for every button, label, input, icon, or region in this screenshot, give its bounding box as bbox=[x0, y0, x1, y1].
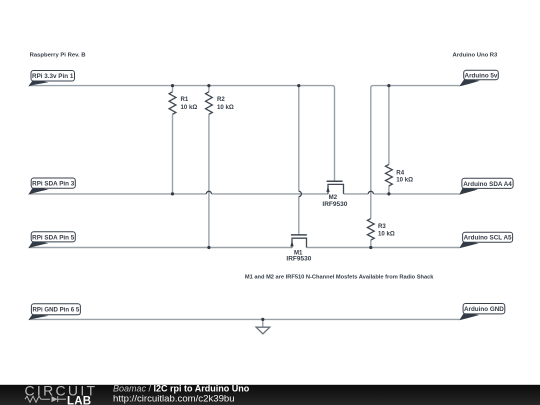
svg-text:Arduino GND: Arduino GND bbox=[464, 306, 504, 313]
svg-text:LAB: LAB bbox=[67, 395, 91, 405]
svg-text:Arduino Uno R3: Arduino Uno R3 bbox=[453, 52, 499, 58]
svg-text:Arduino 5v: Arduino 5v bbox=[465, 72, 498, 79]
svg-text:10 kΩ: 10 kΩ bbox=[396, 177, 413, 184]
svg-text:M1 and M2 are IRF510 N-Channel: M1 and M2 are IRF510 N-Channel Mosfets A… bbox=[245, 274, 434, 280]
svg-text:Raspberry Pi Rev. B: Raspberry Pi Rev. B bbox=[30, 53, 86, 59]
svg-text:IRF9530: IRF9530 bbox=[286, 256, 311, 263]
svg-text:R3: R3 bbox=[378, 223, 386, 230]
svg-text:10 kΩ: 10 kΩ bbox=[217, 104, 234, 111]
svg-text:R4: R4 bbox=[396, 170, 404, 177]
svg-text:RPi GND Pin 6 5: RPi GND Pin 6 5 bbox=[33, 307, 80, 314]
svg-text:10 kΩ: 10 kΩ bbox=[378, 231, 395, 238]
svg-text:M2: M2 bbox=[329, 194, 338, 201]
svg-text:R2: R2 bbox=[217, 96, 225, 103]
svg-text:RPi 3.3v Pin 1: RPi 3.3v Pin 1 bbox=[32, 73, 74, 80]
svg-text:Boamac / I2C rpi to Arduino Un: Boamac / I2C rpi to Arduino Uno bbox=[113, 384, 250, 394]
svg-text:R1: R1 bbox=[181, 96, 189, 103]
svg-text:10 kΩ: 10 kΩ bbox=[181, 104, 198, 111]
svg-text:Arduino SCL A5: Arduino SCL A5 bbox=[464, 235, 512, 242]
svg-text:RPi SDA Pin 5: RPi SDA Pin 5 bbox=[32, 234, 75, 241]
svg-text:IRF9530: IRF9530 bbox=[322, 201, 347, 208]
svg-text:http://circuitlab.com/c2k39bu: http://circuitlab.com/c2k39bu bbox=[113, 393, 235, 404]
svg-text:RPi SDA Pin 3: RPi SDA Pin 3 bbox=[32, 181, 75, 188]
svg-text:Arduino SDA A4: Arduino SDA A4 bbox=[463, 181, 512, 188]
